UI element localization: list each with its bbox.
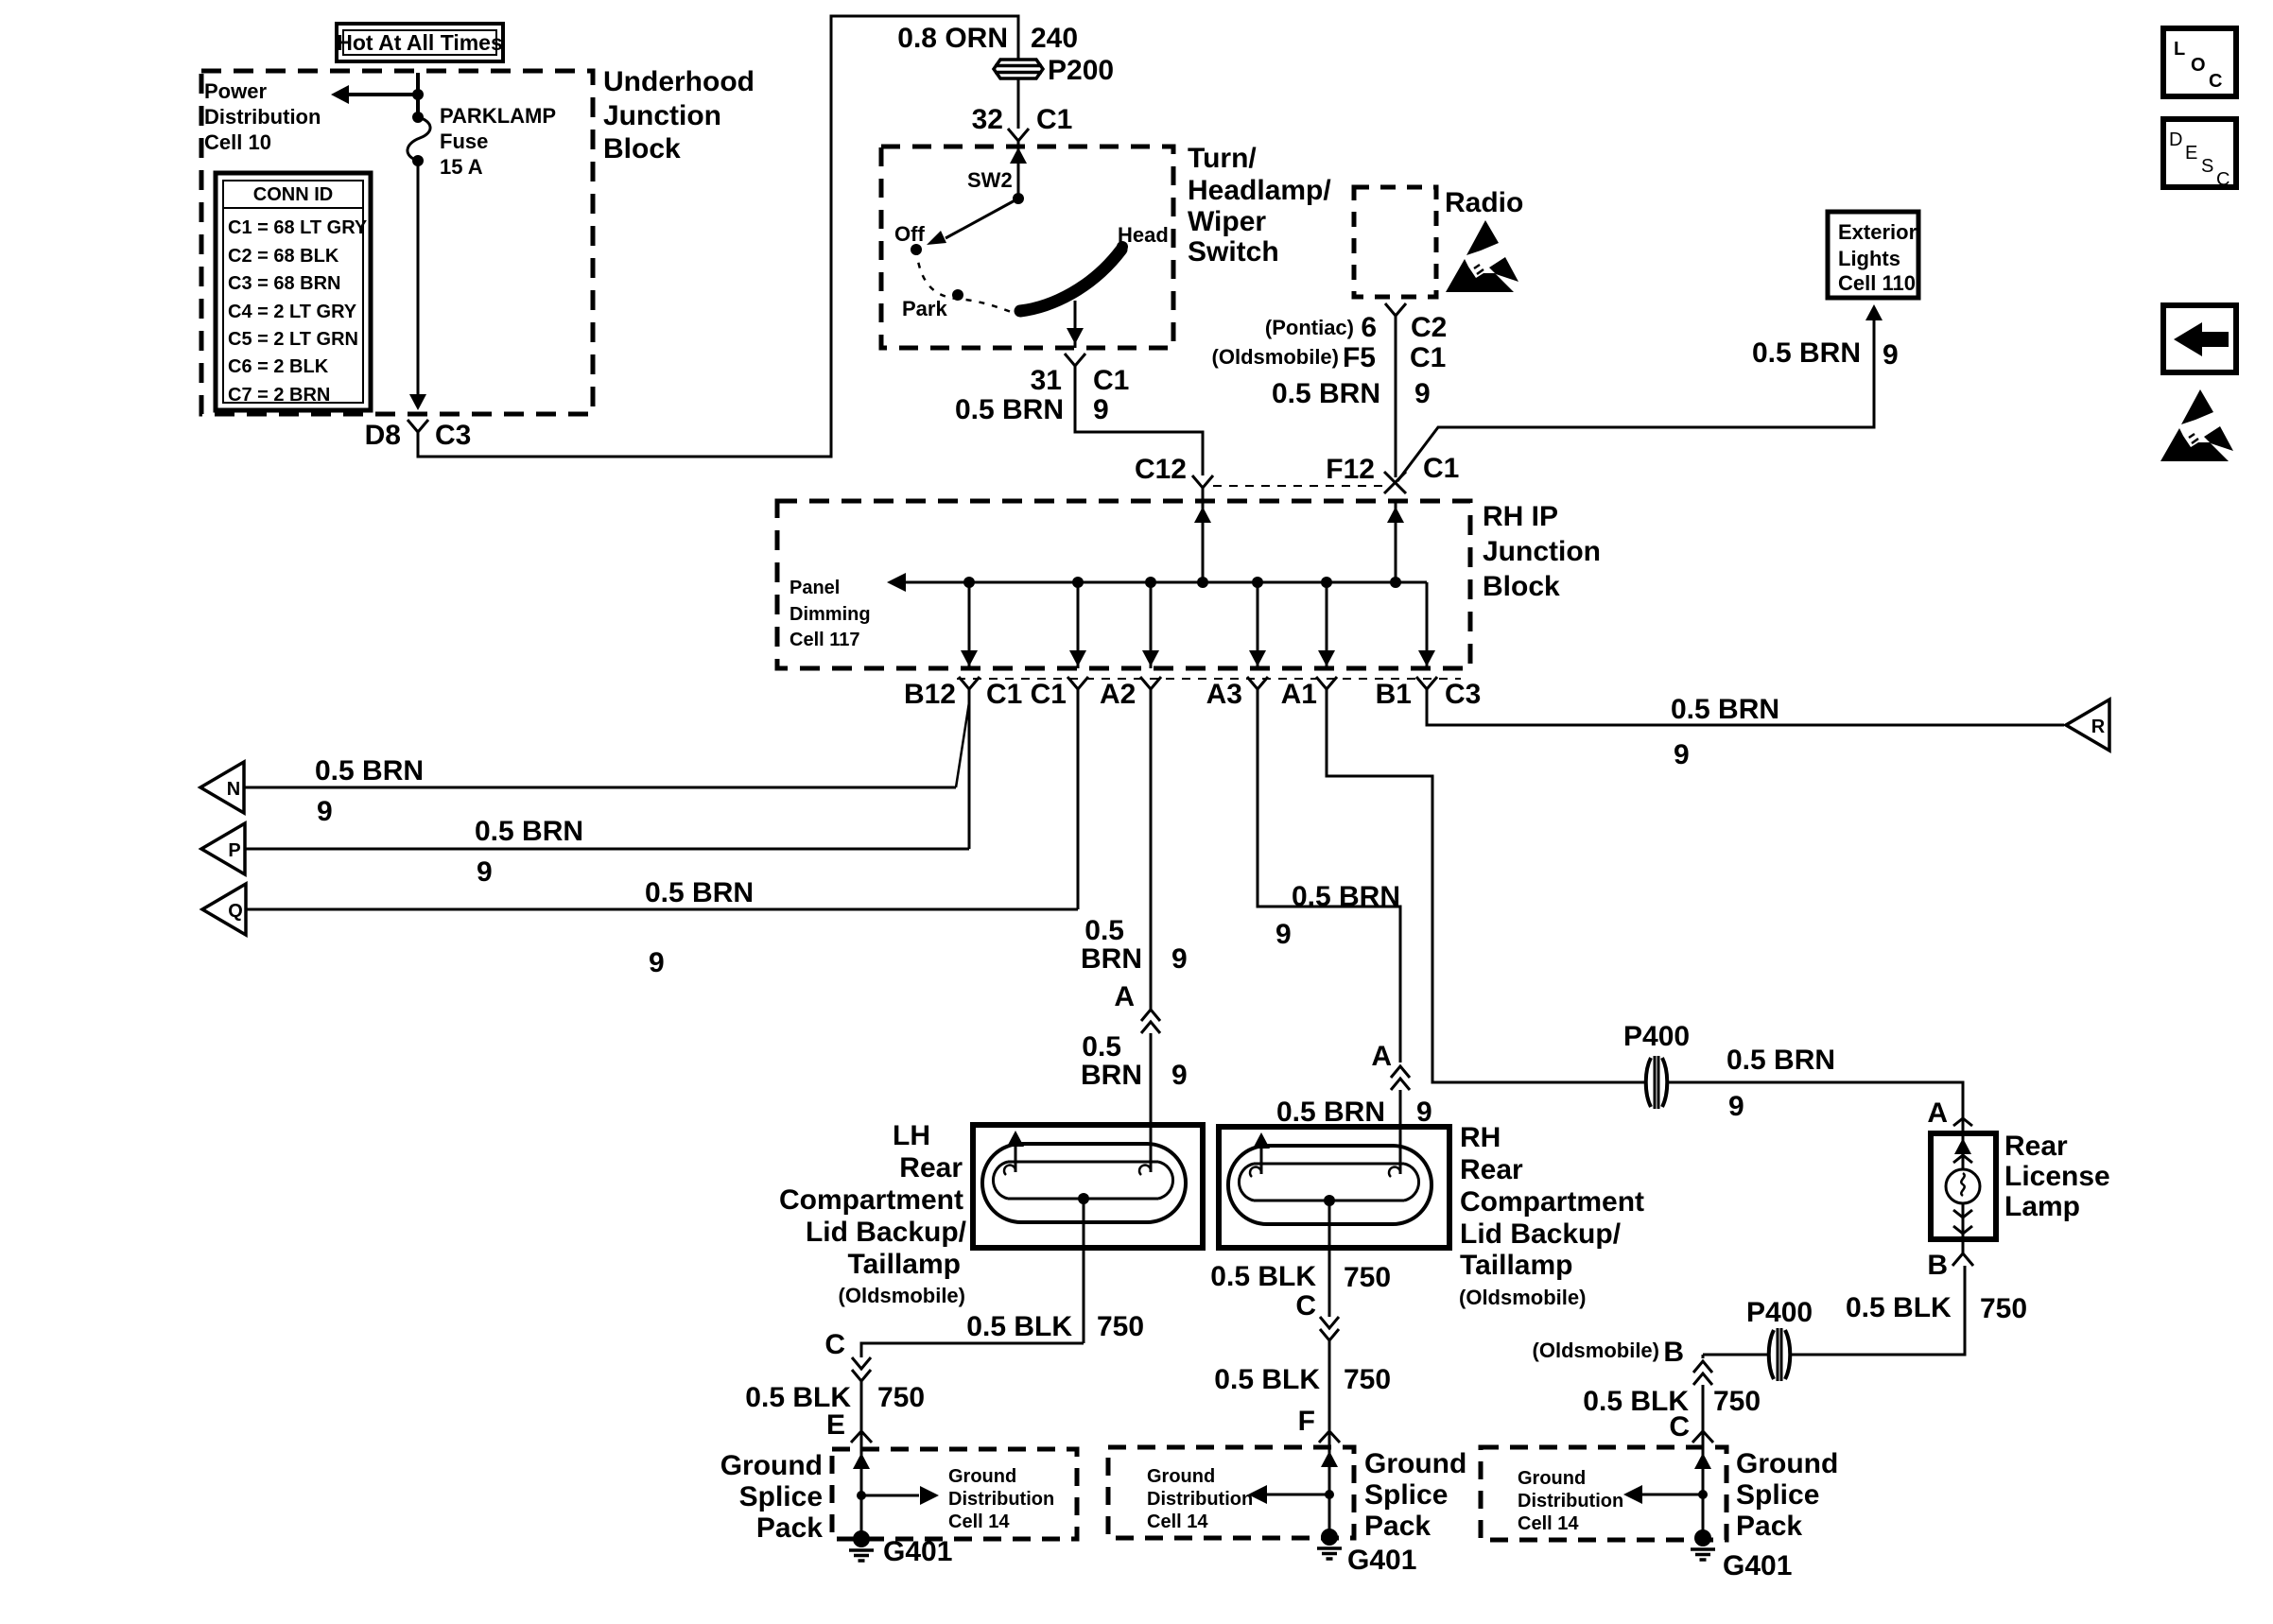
svg-text:C12: C12: [1135, 454, 1187, 485]
wire: splice pack 3 internal: [1623, 1431, 1711, 1538]
label: Ground Distribution Cell 14 (pack 1): [948, 1466, 1054, 1532]
connector C (left ground path): [824, 1329, 871, 1381]
svg-text:B: B: [1927, 1250, 1948, 1281]
svg-text:Cell 10: Cell 10: [204, 130, 271, 154]
svg-text:Distribution: Distribution: [204, 105, 321, 129]
svg-text:S: S: [2201, 156, 2213, 177]
svg-text:0.5 BRN: 0.5 BRN: [1671, 694, 1779, 725]
wire: C3 to R lead: [1427, 694, 2064, 770]
svg-text:License: License: [2004, 1161, 2110, 1192]
svg-text:750: 750: [877, 1382, 925, 1413]
svg-text:0.5 BRN: 0.5 BRN: [955, 394, 1064, 425]
label: 0.8 ORN / 240: [897, 23, 1078, 54]
svg-text:0.5 BRN: 0.5 BRN: [475, 816, 583, 847]
reference icon back-arrow: [2163, 305, 2236, 372]
svg-text:C: C: [824, 1329, 845, 1360]
svg-text:C: C: [2216, 169, 2230, 190]
connector C at splice pack 3: [1692, 1431, 1713, 1443]
svg-text:0.5: 0.5: [1082, 1031, 1121, 1063]
inline connector A (LH circuit): [1141, 1010, 1160, 1033]
svg-text:O: O: [2191, 55, 2206, 76]
connector radio C2/C1: [1385, 303, 1406, 329]
wire: C to E: [745, 1381, 925, 1441]
svg-text:Underhood: Underhood: [603, 66, 755, 97]
wire: A2 drop to LH lamp: [1081, 702, 1188, 1012]
svg-text:Taillamp: Taillamp: [1460, 1250, 1572, 1281]
svg-text:0.5 BRN: 0.5 BRN: [1752, 337, 1861, 369]
splice P200: [994, 55, 1114, 86]
svg-text:9: 9: [649, 947, 665, 978]
svg-text:C1: C1: [1031, 679, 1067, 710]
svg-text:9: 9: [477, 856, 493, 888]
connector C12: [1135, 454, 1213, 501]
drop B1/C3 (to R): [1376, 582, 1482, 710]
wire: splice pack 1 internal: [853, 1431, 939, 1539]
svg-text:9: 9: [1728, 1091, 1744, 1122]
Turn/Headlamp/Wiper Switch enclosure: [881, 147, 1173, 348]
svg-text:C2 = 68 BLK: C2 = 68 BLK: [228, 246, 339, 267]
wire: P200 to switch connector: [1017, 79, 1020, 129]
svg-text:Park: Park: [902, 297, 947, 320]
wire: Q lead: [245, 877, 1078, 978]
ground splice pack 3 enclosure: [1481, 1447, 1726, 1540]
connector row thin dashed line: [957, 678, 1461, 680]
svg-text:31: 31: [1031, 365, 1062, 396]
wire: C3 loop up to P200: [418, 16, 1018, 457]
ESD symbol (radio): [1446, 220, 1518, 292]
svg-text:Distribution: Distribution: [948, 1489, 1054, 1510]
wire: F12 riser into block: [1387, 501, 1404, 588]
RH IP Junction Block enclosure (dashed): [777, 501, 1470, 668]
label: Ground Splice Pack (left): [720, 1450, 824, 1544]
svg-text:A3: A3: [1206, 679, 1242, 710]
svg-text:C1: C1: [1093, 365, 1129, 396]
wire: P400 to (Oldsmobile) B: [1703, 1354, 1769, 1356]
ground splice pack 1 enclosure: [832, 1449, 1077, 1539]
svg-text:PARKLAMP: PARKLAMP: [440, 104, 556, 128]
svg-text:Lid Backup/: Lid Backup/: [806, 1217, 967, 1248]
svg-text:Block: Block: [1483, 571, 1560, 602]
drop A2 (to LH lamp): [1140, 577, 1161, 702]
svg-text:Lights: Lights: [1838, 247, 1900, 270]
wire: C1 to P: [968, 702, 971, 849]
svg-text:Hot At All Times: Hot At All Times: [337, 30, 503, 55]
svg-text:Junction: Junction: [1483, 536, 1601, 567]
svg-text:Ground: Ground: [720, 1450, 823, 1481]
connector 31 / C1: [955, 354, 1129, 425]
svg-text:RH: RH: [1460, 1122, 1501, 1153]
svg-text:F12: F12: [1326, 454, 1375, 485]
svg-text:C6 = 2 BLK: C6 = 2 BLK: [228, 356, 329, 377]
svg-text:P400: P400: [1746, 1297, 1813, 1328]
svg-text:C3: C3: [1445, 679, 1481, 710]
wire: C1/A2 to Q: [1077, 702, 1080, 909]
connector 32 / C1: [972, 104, 1073, 154]
labels: (Pontiac) 6 C2 / (Oldsmobile) F5 C1 / 0.5 BRN 9: [1212, 312, 1448, 409]
wire: splice pack 2 internal: [1248, 1431, 1338, 1537]
svg-text:C1: C1: [1036, 104, 1072, 135]
drop A1 (to rear license lamp): [1281, 577, 1337, 710]
Rear License Lamp: [1931, 1133, 1996, 1239]
svg-text:C7 = 2 BRN: C7 = 2 BRN: [228, 385, 330, 406]
svg-text:C: C: [1669, 1411, 1690, 1443]
svg-text:Fuse: Fuse: [440, 130, 488, 153]
label: Ground Splice Pack (right): [1736, 1448, 1838, 1542]
svg-text:F5: F5: [1343, 342, 1376, 373]
svg-text:(Pontiac): (Pontiac): [1265, 316, 1354, 339]
svg-text:A1: A1: [1281, 679, 1317, 710]
svg-text:9: 9: [1883, 339, 1899, 371]
svg-text:E: E: [2185, 143, 2197, 164]
svg-text:A: A: [1927, 1097, 1948, 1129]
svg-text:Pack: Pack: [756, 1512, 823, 1544]
svg-text:Dimming: Dimming: [789, 604, 871, 625]
inline connector A (RH circuit): [1391, 1066, 1410, 1090]
svg-text:750: 750: [1344, 1262, 1391, 1293]
Exterior Lights Cell 110 box: [1828, 212, 1918, 298]
svg-text:C1 = 68 LT GRY: C1 = 68 LT GRY: [228, 217, 368, 238]
wire: A to LH lamp pin: [1081, 1031, 1188, 1175]
svg-text:P400: P400: [1623, 1021, 1690, 1052]
fuse PARKLAMP 15 A: [408, 104, 556, 179]
svg-text:G401: G401: [1723, 1550, 1792, 1581]
label: Ground Distribution Cell 14 (pack 2): [1147, 1466, 1253, 1532]
reference icon LOC: [2163, 28, 2236, 96]
wire: N lead: [244, 755, 956, 827]
svg-text:0.5 BRN: 0.5 BRN: [1726, 1045, 1835, 1076]
svg-text:15 A: 15 A: [440, 155, 483, 179]
label: Rear License Lamp: [2004, 1131, 2110, 1222]
svg-text:Switch: Switch: [1188, 236, 1279, 268]
svg-text:SW2: SW2: [967, 168, 1013, 192]
svg-text:0.5: 0.5: [1084, 915, 1124, 946]
svg-text:B: B: [1663, 1337, 1684, 1368]
switch SW2 blade and positions: [894, 168, 1169, 320]
connector N: [200, 762, 244, 813]
svg-text:750: 750: [1097, 1311, 1144, 1342]
svg-text:Splice: Splice: [1364, 1479, 1448, 1511]
svg-text:Rear: Rear: [2004, 1131, 2068, 1162]
svg-text:9: 9: [1414, 378, 1431, 409]
svg-text:Panel: Panel: [789, 578, 840, 598]
svg-text:0.5 BRN: 0.5 BRN: [1276, 1097, 1385, 1128]
svg-text:Taillamp: Taillamp: [848, 1249, 961, 1280]
svg-text:9: 9: [1171, 943, 1188, 975]
svg-text:(Oldsmobile): (Oldsmobile): [1459, 1286, 1586, 1309]
connector F12 / C1 (X): [1326, 453, 1459, 493]
wire: battery feed into fuse: [416, 73, 420, 117]
svg-text:0.5 BRN: 0.5 BRN: [315, 755, 424, 786]
svg-text:RH IP: RH IP: [1483, 501, 1558, 532]
ground G401 (pack 2): [1317, 1529, 1416, 1576]
svg-text:0.5 BLK: 0.5 BLK: [1214, 1364, 1320, 1395]
svg-text:D: D: [2169, 130, 2182, 150]
svg-text:B12: B12: [904, 679, 956, 710]
svg-text:Lamp: Lamp: [2004, 1191, 2080, 1222]
svg-text:Splice: Splice: [739, 1481, 823, 1512]
svg-text:Pack: Pack: [1364, 1511, 1431, 1542]
svg-text:Pack: Pack: [1736, 1511, 1802, 1542]
label: Panel Dimming Cell 117: [789, 578, 871, 650]
svg-text:E: E: [826, 1409, 845, 1441]
svg-text:Compartment: Compartment: [779, 1184, 963, 1216]
label: Ground Distribution Cell 14 (pack 3): [1518, 1468, 1623, 1534]
connector Q: [202, 884, 246, 935]
svg-text:Turn/: Turn/: [1188, 143, 1257, 174]
svg-text:C3 = 68 BRN: C3 = 68 BRN: [228, 273, 341, 294]
svg-text:Cell 110: Cell 110: [1838, 271, 1916, 295]
wire: exterior lights feed: [1397, 304, 1899, 481]
svg-text:9: 9: [1093, 394, 1109, 425]
svg-text:Radio: Radio: [1445, 187, 1523, 218]
svg-text:Distribution: Distribution: [1147, 1489, 1253, 1510]
svg-text:C: C: [2209, 71, 2222, 92]
RH Rear Compartment Lid Backup/Taillamp lamp: [1219, 1127, 1449, 1248]
LH Rear Compartment Lid Backup/Taillamp lamp: [973, 1125, 1203, 1248]
ground splice pack 2 enclosure: [1108, 1447, 1354, 1538]
wire: switch output with down arrow: [1067, 301, 1084, 348]
wire: RH lamp ground pin: [1210, 1201, 1391, 1322]
label: LH Rear Compartment Lid Backup/Taillamp (Oldsmobile): [779, 1120, 967, 1307]
drop B12/C1: [904, 577, 1022, 710]
svg-text:Ground: Ground: [1736, 1448, 1838, 1479]
svg-text:Wiper: Wiper: [1188, 206, 1266, 237]
svg-text:9: 9: [1416, 1097, 1432, 1128]
svg-text:F: F: [1298, 1406, 1315, 1437]
wire: C12 riser into block: [1194, 501, 1211, 588]
wire: P lead: [245, 816, 969, 888]
connector line C12-F12 (thin dashed): [1213, 485, 1382, 487]
svg-text:G401: G401: [1347, 1545, 1416, 1576]
svg-text:C3: C3: [435, 420, 471, 451]
svg-text:(Oldsmobile): (Oldsmobile): [839, 1284, 965, 1307]
svg-text:C1: C1: [1423, 453, 1459, 484]
node: feed junction dot: [412, 89, 424, 100]
connector E at ground splice pack: [851, 1431, 872, 1443]
wire: lamp B to P400 return: [1790, 1266, 2027, 1355]
ground G401 (pack 3): [1691, 1529, 1792, 1581]
svg-text:Compartment: Compartment: [1460, 1186, 1644, 1218]
svg-text:0.5 BLK: 0.5 BLK: [966, 1311, 1072, 1342]
svg-text:C: C: [1295, 1290, 1316, 1322]
svg-text:A2: A2: [1100, 679, 1136, 710]
svg-text:C1: C1: [1410, 342, 1446, 373]
svg-text:6: 6: [1361, 312, 1377, 343]
svg-text:Ground: Ground: [1147, 1466, 1215, 1487]
wire: P400 to rear license lamp A: [1667, 1045, 1963, 1122]
svg-text:240: 240: [1031, 23, 1078, 54]
label: Power Distribution Cell 10: [204, 79, 321, 154]
svg-text:Ground: Ground: [1364, 1448, 1466, 1479]
svg-text:0.5 BRN: 0.5 BRN: [645, 877, 754, 908]
label: RH IP Junction Block: [1483, 501, 1601, 602]
svg-text:750: 750: [1713, 1386, 1761, 1417]
svg-text:CONN ID: CONN ID: [253, 184, 333, 205]
svg-text:C4 = 2 LT GRY: C4 = 2 LT GRY: [228, 302, 357, 322]
connector (Oldsmobile) B: [1533, 1337, 1712, 1385]
svg-text:Power: Power: [204, 79, 267, 103]
svg-text:D8: D8: [365, 420, 401, 451]
Radio enclosure (dashed): [1354, 187, 1523, 297]
svg-text:32: 32: [972, 104, 1003, 135]
wire: jog to left ground drop: [861, 1343, 1084, 1357]
svg-text:C1: C1: [986, 679, 1022, 710]
connector R: [2066, 700, 2109, 751]
svg-text:Off: Off: [894, 222, 925, 246]
svg-text:P: P: [228, 840, 240, 861]
svg-text:A: A: [1371, 1041, 1392, 1072]
svg-text:9: 9: [1674, 739, 1690, 770]
svg-text:C2: C2: [1411, 312, 1447, 343]
Underhood Junction Block enclosure (dashed): [201, 71, 593, 414]
label: RH Rear Compartment Lid Backup/Taillamp (Oldsmobile): [1459, 1122, 1644, 1309]
CONN ID table: [216, 173, 371, 410]
wire: radio output to F12: [1395, 329, 1397, 477]
svg-text:BRN: BRN: [1081, 943, 1142, 975]
svg-text:Head: Head: [1118, 223, 1169, 247]
wire: A1 drop to P400: [1327, 702, 1646, 1082]
connector B (rear license lamp): [1927, 1240, 1973, 1281]
wire: A to RH lamp pin: [1276, 1090, 1432, 1177]
svg-text:A: A: [1114, 981, 1135, 1012]
power feed label box "Hot At All Times": [337, 24, 503, 61]
wire: panel dimming bus with left arrow: [887, 573, 1427, 592]
svg-text:Ground: Ground: [1518, 1468, 1586, 1489]
svg-text:(Oldsmobile): (Oldsmobile): [1533, 1339, 1659, 1362]
svg-text:9: 9: [1275, 919, 1292, 950]
svg-text:Rear: Rear: [899, 1152, 963, 1183]
svg-text:Cell 14: Cell 14: [1518, 1513, 1579, 1534]
reference icon ESD: [2160, 389, 2233, 461]
svg-text:P200: P200: [1048, 55, 1114, 86]
svg-text:0.5 BRN: 0.5 BRN: [1272, 378, 1380, 409]
wire: B12 to N (slant): [956, 702, 969, 787]
ground G401 (pack 1): [849, 1530, 952, 1567]
connector F at ground splice pack: [1319, 1431, 1340, 1443]
svg-text:LH: LH: [893, 1120, 930, 1151]
wire: LH lamp ground pin: [966, 1199, 1144, 1343]
svg-text:N: N: [227, 779, 240, 800]
connector D8 / C3: [365, 420, 472, 451]
svg-text:Cell 14: Cell 14: [1147, 1512, 1208, 1532]
svg-text:Cell 14: Cell 14: [948, 1512, 1010, 1532]
svg-text:(Oldsmobile): (Oldsmobile): [1212, 345, 1339, 369]
drop C1 (to Q... P): [1031, 577, 1136, 710]
label: Ground Splice Pack (middle): [1364, 1448, 1466, 1542]
svg-text:Distribution: Distribution: [1518, 1491, 1623, 1512]
svg-text:R: R: [2091, 717, 2106, 737]
wire: power distribution branch with left arrow: [331, 85, 418, 104]
label: Turn/Headlamp/Wiper Switch: [1188, 143, 1331, 268]
drop A3 (to RH lamp): [1206, 577, 1268, 710]
svg-text:Block: Block: [603, 133, 681, 164]
svg-text:0.5 BLK: 0.5 BLK: [1210, 1261, 1316, 1292]
inline connector P400 (feed): [1623, 1021, 1690, 1109]
svg-text:Junction: Junction: [603, 100, 721, 131]
svg-text:G401: G401: [883, 1536, 952, 1567]
label: Underhood Junction Block: [603, 66, 755, 164]
svg-text:0.8 ORN: 0.8 ORN: [897, 23, 1008, 54]
reference icon DESC: [2163, 119, 2236, 190]
svg-text:0.5 BLK: 0.5 BLK: [1846, 1292, 1952, 1323]
connector P: [201, 823, 245, 874]
svg-text:0.5 BRN: 0.5 BRN: [1292, 881, 1400, 912]
svg-text:Lid Backup/: Lid Backup/: [1460, 1218, 1622, 1250]
inline connector P400 (return): [1746, 1297, 1813, 1381]
svg-text:BRN: BRN: [1081, 1060, 1142, 1091]
svg-text:C5 = 2 LT GRN: C5 = 2 LT GRN: [228, 329, 358, 350]
svg-text:Rear: Rear: [1460, 1154, 1523, 1185]
connector C (middle ground path): [1320, 1317, 1339, 1340]
svg-text:750: 750: [1344, 1364, 1391, 1395]
svg-text:B1: B1: [1376, 679, 1412, 710]
wire: B to C (right ground path): [1583, 1385, 1761, 1443]
svg-text:Splice: Splice: [1736, 1479, 1819, 1511]
svg-text:750: 750: [1980, 1293, 2027, 1324]
wire: A3 drop to RH lamp: [1258, 702, 1400, 1072]
wire: fuse output to D8 with down arrow: [409, 161, 426, 410]
svg-text:Exterior: Exterior: [1838, 220, 1917, 244]
svg-text:Cell 117: Cell 117: [789, 630, 860, 650]
switch SW2 entry arrow: [1010, 140, 1027, 199]
connector A (rear license lamp): [1927, 1097, 1972, 1133]
svg-text:Q: Q: [228, 901, 243, 922]
svg-text:Headlamp/: Headlamp/: [1188, 175, 1331, 206]
svg-text:9: 9: [317, 796, 333, 827]
svg-text:9: 9: [1171, 1060, 1188, 1091]
svg-text:L: L: [2174, 39, 2185, 60]
wire: C to F: [1214, 1340, 1391, 1437]
svg-text:Ground: Ground: [948, 1466, 1016, 1487]
wire: switch output to C12: [1075, 379, 1203, 475]
